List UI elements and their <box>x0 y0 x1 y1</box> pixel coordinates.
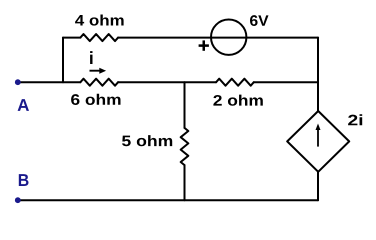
label 2 ohm <box>213 95 262 106</box>
plus sign of source <box>199 40 209 50</box>
wire 5 ohm upper lead <box>184 82 186 128</box>
label i <box>90 51 92 64</box>
wire main right segment <box>254 81 318 83</box>
label A <box>18 99 29 111</box>
wire left vertical of top branch <box>62 38 64 83</box>
label 6 ohm <box>71 94 120 105</box>
resistor R3 2 ohm <box>216 79 254 86</box>
dependent current source U1 diamond 2i <box>287 111 349 172</box>
node A dot <box>15 79 21 85</box>
node B dot <box>15 197 21 203</box>
wire node A to 6 ohm <box>18 81 80 83</box>
current i arrow <box>90 68 107 74</box>
voltage source V1 6V circle <box>211 20 246 55</box>
resistor R2 6 ohm <box>80 79 118 86</box>
wire 5 ohm lower lead <box>184 165 186 200</box>
wire right vertical upper <box>317 38 319 111</box>
resistor R4 5 ohm vertical <box>181 128 189 165</box>
label 2i <box>348 114 362 125</box>
wire top branch left lead <box>63 37 80 39</box>
label 4 ohm <box>75 14 123 25</box>
resistor R1 4 ohm <box>80 34 118 41</box>
label B <box>19 174 29 186</box>
label 6V <box>250 15 268 26</box>
wire top branch to right corner <box>118 37 318 39</box>
current source arrow <box>316 124 321 147</box>
label 5 ohm <box>122 135 172 146</box>
wire main middle segment <box>118 81 216 83</box>
wire right vertical lower <box>317 172 319 200</box>
wire bottom node B rail <box>18 199 318 201</box>
